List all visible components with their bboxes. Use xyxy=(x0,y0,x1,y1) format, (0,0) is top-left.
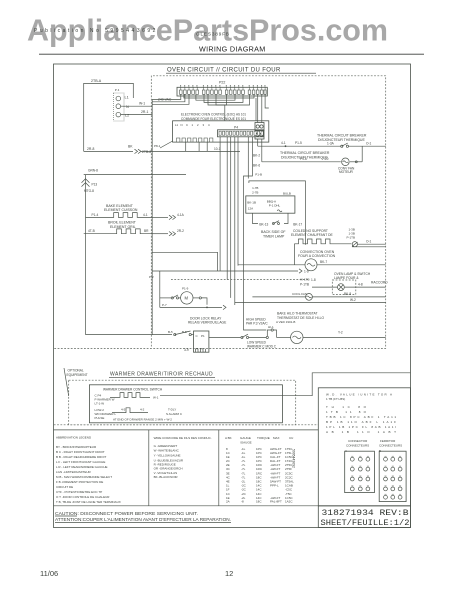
svg-text:BK-13: BK-13 xyxy=(259,222,268,226)
svg-text:P8-1: P8-1 xyxy=(154,144,161,148)
bottom wire of motor box xyxy=(160,306,222,308)
svg-text:THERMAL CIRCUIT BREAKER: THERMAL CIRCUIT BREAKER xyxy=(280,151,330,155)
svg-text:TIMER LAMP: TIMER LAMP xyxy=(263,235,285,239)
svg-text:BK-8: BK-8 xyxy=(344,292,351,296)
terminal N xyxy=(116,104,121,109)
svg-text:B C - RIGHT FRONT/AVANT DROIT: B C - RIGHT FRONT/AVANT DROIT xyxy=(56,450,105,454)
svg-text:P13: P13 xyxy=(92,182,98,186)
svg-text:12A: 12A xyxy=(248,206,253,210)
EOC left pin labels xyxy=(175,123,210,127)
svg-text:M: M xyxy=(185,296,189,301)
EOC pin drop wires xyxy=(185,142,187,151)
svg-text:10-1: 10-1 xyxy=(214,147,221,151)
chassis ground symbol xyxy=(85,175,87,191)
left connector grid xyxy=(345,451,375,492)
signal 2 waveform xyxy=(112,408,148,413)
svg-text:F B -FIREMENT PROTECTION DE: F B -FIREMENT PROTECTION DE xyxy=(56,480,103,484)
box top wire y265.6 xyxy=(238,264,305,266)
svg-text:7-10: 7-10 xyxy=(322,157,329,161)
svg-text:/GAUGE: /GAUGE xyxy=(240,441,252,445)
signal 1 wire to right xyxy=(160,395,282,397)
wire y302.6 xyxy=(235,302,386,304)
svg-text:4-1: 4-1 xyxy=(281,141,286,145)
ground wire run xyxy=(84,174,186,176)
timer assembly inner box xyxy=(246,196,295,213)
svg-text:BK-7: BK-7 xyxy=(320,260,327,264)
P8 pin row lower-left of EOC xyxy=(177,138,213,142)
P22 routing bus U1 xyxy=(152,94,181,99)
svg-text:2R-1: 2R-1 xyxy=(141,110,148,114)
svg-text:BAKE ELEMENT: BAKE ELEMENT xyxy=(106,204,134,208)
svg-text:Y-2: Y-2 xyxy=(338,330,343,334)
wire L1 feed from terminal block top xyxy=(84,83,134,151)
svg-text:4T-B: 4T-B xyxy=(88,229,95,233)
wire code column xyxy=(154,436,212,479)
svg-text:1-6: 1-6 xyxy=(304,270,309,274)
svg-text:BK-1B: BK-1B xyxy=(247,201,256,205)
svg-text:5995443692: 5995443692 xyxy=(292,449,296,468)
connector arrows 2TB-B xyxy=(135,149,142,153)
svg-text:B-5: B-5 xyxy=(168,330,173,334)
svg-text:4-8: 4-8 xyxy=(358,283,363,287)
svg-text:1-3A: 1-3A xyxy=(327,142,335,146)
svg-text:L R - LEFT REAR/ARRIERE GAUCH: L R - LEFT REAR/ARRIERE GAUCHE xyxy=(56,465,108,469)
warmer drawer motor xyxy=(277,336,291,338)
svg-text:12: 12 xyxy=(225,569,233,578)
svg-text:BY - BRICK/INTERRUPTEUR: BY - BRICK/INTERRUPTEUR xyxy=(56,445,97,449)
svg-text:BR: BR xyxy=(144,229,149,233)
svg-text:LT-1-W: LT-1-W xyxy=(95,401,105,405)
svg-text:2-7B: 2-7B xyxy=(252,191,258,195)
svg-text:P1-B: P1-B xyxy=(255,173,262,177)
oven lamp xyxy=(338,284,345,291)
abbreviation legend column xyxy=(56,436,121,504)
svg-text:WARMER C MOD C: WARMER C MOD C xyxy=(247,345,277,349)
M switch contacts xyxy=(160,297,171,299)
svg-text:L2: L2 xyxy=(125,113,129,117)
svg-text:COOL FAN: COOL FAN xyxy=(292,292,307,296)
svg-text:1-7B: 1-7B xyxy=(252,186,258,190)
svg-text:CAUTION: DISCONNECT POWER BEFO: CAUTION: DISCONNECT POWER BEFORE SERVICI… xyxy=(55,511,198,516)
broil wire crossing into oven box xyxy=(152,233,168,235)
terminal L2 xyxy=(116,112,121,117)
motor circuit wire y271 xyxy=(152,270,298,272)
P1 connector on EOC xyxy=(255,123,264,131)
oven cool fan wires right area xyxy=(312,296,386,298)
P22 routing bus U4 xyxy=(204,94,243,102)
sheet border xyxy=(54,64,411,528)
convection fan motor xyxy=(342,158,350,166)
P22 drop to EOC top xyxy=(224,105,226,121)
svg-text:P-2: P-2 xyxy=(149,275,154,279)
svg-text:T B, TB-DE JOINT DE LIGNE TER: T B, TB-DE JOINT DE LIGNE TER TERMINAUX xyxy=(56,500,121,504)
svg-text:P-7: P-7 xyxy=(162,303,167,307)
svg-text:CIRCUIT DE: CIRCUIT DE xyxy=(56,485,73,489)
convection motor xyxy=(305,259,317,271)
svg-text:L F - LEFT FRONT/AVANT GAUC: L F - LEFT FRONT/AVANT GAUCHE xyxy=(56,460,105,464)
svg-text:DISJONCTEUR THERMIQUE: DISJONCTEUR THERMIQUE xyxy=(318,138,365,142)
warmer wires to right margin xyxy=(282,373,410,396)
svg-text:2R-8: 2R-8 xyxy=(87,147,94,151)
terminal L1 xyxy=(116,96,121,101)
svg-text:M B - MAN WARM/COMMANDE SELEC: M B - MAN WARM/COMMANDE SELECT xyxy=(56,475,112,479)
svg-text:2R-2: 2R-2 xyxy=(177,229,184,233)
signal 1 waveform xyxy=(110,393,150,398)
relay coil bumps xyxy=(196,349,206,352)
door light switch motor M xyxy=(159,271,161,307)
oven lamp dashed box xyxy=(332,280,356,295)
terminal block P13 dotted body xyxy=(114,93,125,121)
svg-text:BROIL ELEMENT: BROIL ELEMENT xyxy=(108,220,137,224)
svg-text:W-2: W-2 xyxy=(350,298,356,302)
svg-text:COMMANDE FOUR ELECTRONIQUE ES: COMMANDE FOUR ELECTRONIQUE ES 101 xyxy=(181,117,246,121)
timer coil squiggle xyxy=(277,210,282,212)
thermal breaker 2 wire xyxy=(262,161,341,163)
left feed vertical xyxy=(85,191,87,335)
svg-text:1PL 1B 1PC FL 8AB: 1PL 1B 1PC FL 8AB 1A1I xyxy=(326,425,396,429)
P22 right pins drop to P1/P2 connectors xyxy=(257,94,259,122)
svg-text:N: N xyxy=(181,123,183,127)
svg-text:FOUR A CONVECTION: FOUR A CONVECTION xyxy=(298,254,336,258)
svg-text:BK-2: BK-2 xyxy=(253,154,260,158)
svg-text:BK-17: BK-17 xyxy=(293,222,302,226)
P22 routing bus U5 xyxy=(208,94,227,105)
svg-text:ELEMENT CHAUFFANT DE: ELEMENT CHAUFFANT DE xyxy=(291,233,333,237)
svg-text:1 TB (FT LBS): 1 TB (FT LBS) xyxy=(326,397,345,401)
P22 pin number row xyxy=(180,85,266,87)
revision box xyxy=(318,506,410,528)
header rule xyxy=(39,53,424,55)
svg-text:P4: P4 xyxy=(234,126,238,130)
svg-text:4-1: 4-1 xyxy=(143,213,148,217)
svg-text:O T -DOOR CONTROLE DE CHALEUR: O T -DOOR CONTROLE DE CHALEUR xyxy=(56,495,110,499)
wire2 up-connect xyxy=(361,146,363,162)
thermal fuse xyxy=(352,242,357,247)
svg-text:P1-6: P1-6 xyxy=(300,157,307,161)
svg-text:P1: P1 xyxy=(201,334,205,338)
svg-text:WARMER DRAWER/TIROIR RECHAUD: WARMER DRAWER/TIROIR RECHAUD xyxy=(110,372,213,378)
svg-text:4-1A: 4-1A xyxy=(177,213,185,217)
legend divider 1 xyxy=(148,430,150,506)
legend top rule xyxy=(54,429,319,431)
element return drop xyxy=(293,244,295,265)
svg-text:P 4: P 4 xyxy=(115,88,120,92)
svg-text:ELECTRONIC OVEN CONTROL (EOC): ELECTRONIC OVEN CONTROL (EOC) AS 101 xyxy=(181,112,246,116)
svg-text:ATTENTION:COUPER L'ALIMENTATIO: ATTENTION:COUPER L'ALIMENTATION AVANT D'… xyxy=(55,517,231,522)
svg-text:2TB-A: 2TB-A xyxy=(91,79,102,83)
junction dot xyxy=(285,145,287,147)
svg-text:C: C xyxy=(186,123,188,127)
svg-text:OR -ORANGE/ORCH: OR -ORANGE/ORCH xyxy=(154,466,183,470)
EOC box xyxy=(173,121,269,142)
svg-text:A VED 1901-B: A VED 1901-B xyxy=(276,320,295,324)
svg-text:W -WHITE/BLANC: W -WHITE/BLANC xyxy=(154,449,180,453)
thermal breaker 1 wire xyxy=(258,145,341,147)
svg-text:WARMER DRAWER CONTROL SWITCH: WARMER DRAWER CONTROL SWITCH xyxy=(103,388,163,392)
svg-text:4-5: 4-5 xyxy=(121,408,126,412)
timer assembly outer frame xyxy=(249,181,306,245)
svg-text:O-1: O-1 xyxy=(366,142,372,146)
svg-text:ELEMENT CUISSON: ELEMENT CUISSON xyxy=(104,208,138,212)
svg-text:PULSE: PULSE xyxy=(95,416,105,420)
svg-text:Y -YELLOW/JAUNE: Y -YELLOW/JAUNE xyxy=(154,454,181,458)
dashed rule above legend xyxy=(54,424,319,426)
svg-text:S ALARM C: S ALARM C xyxy=(166,412,183,416)
P22 routing bus U2 xyxy=(184,94,254,98)
hi/lo switch contacts xyxy=(241,336,243,338)
legend divider 2 xyxy=(218,430,220,506)
svg-text:CTF - POTENTIOMETRE EOC TP: CTF - POTENTIOMETRE EOC TP xyxy=(56,490,102,494)
wire relay to warmer motor xyxy=(209,336,241,338)
thermal breaker 1 switch xyxy=(341,145,343,147)
P22 routing bus U6 xyxy=(216,94,250,105)
P22 pins xyxy=(180,90,267,94)
svg-text:11/06: 11/06 xyxy=(40,569,58,578)
motor circuit dashed wire y279.6 xyxy=(171,279,308,281)
svg-text:GRN-8: GRN-8 xyxy=(88,168,98,172)
broil element xyxy=(84,229,153,234)
relay contacts xyxy=(174,334,176,336)
svg-text:PAR P.3 V2A/C: PAR P.3 V2A/C xyxy=(246,322,268,326)
svg-text:HI-1: HI-1 xyxy=(268,325,274,329)
svg-text:1-8: 1-8 xyxy=(311,278,316,282)
bake wire crossing into oven box xyxy=(152,216,168,218)
svg-text:BULB: BULB xyxy=(283,191,291,195)
svg-text:P-1TB: P-1TB xyxy=(347,235,356,239)
bake element xyxy=(86,213,153,218)
svg-text:B B - RIGHT REAR/ARRIERE DROI: B B - RIGHT REAR/ARRIERE DROIT xyxy=(56,455,106,459)
wire gauge table column xyxy=(225,436,294,503)
door lock relay wire from left feed xyxy=(86,334,173,336)
svg-text:LGN -LIMITER/LIMITEUR: LGN -LIMITER/LIMITEUR xyxy=(56,470,92,474)
svg-text:P1-4: P1-4 xyxy=(92,213,99,217)
convection element xyxy=(294,239,351,244)
P22 pin ticks xyxy=(181,87,265,90)
svg-text:BK: BK xyxy=(128,145,133,149)
svg-text:W-1: W-1 xyxy=(139,102,145,106)
svg-text:P-1 DHL: P-1 DHL xyxy=(269,204,281,208)
bus branch to motor circuit xyxy=(152,252,217,271)
svg-text:L1: L1 xyxy=(125,96,129,100)
svg-text:BK-6: BK-6 xyxy=(253,164,260,168)
svg-text:SHEET/FEUILLE:1/2: SHEET/FEUILLE:1/2 xyxy=(321,519,410,528)
svg-text:CONVECTION OVEN: CONVECTION OVEN xyxy=(300,250,335,254)
svg-text:WIRE COD/CODE DE FILS DES COND: WIRE COD/CODE DE FILS DES CONDUC. xyxy=(154,436,212,440)
svg-text:318271934 REV:B: 318271934 REV:B xyxy=(322,509,409,518)
door lock relay box xyxy=(194,331,209,352)
timer exit wires xyxy=(253,213,259,223)
svg-text:RELAIS VERROUILLAGE: RELAIS VERROUILLAGE xyxy=(188,321,227,325)
lamp wires xyxy=(312,286,338,288)
svg-text:HI-1TB: HI-1TB xyxy=(300,278,310,282)
svg-text:CONNECTOR: CONNECTOR xyxy=(348,439,368,443)
svg-text:LAMPE FOUR &: LAMPE FOUR & xyxy=(334,276,359,280)
bus wire y150 right of dashed edge xyxy=(141,150,240,152)
P22 routing bus U3 xyxy=(196,94,235,100)
svg-text:ABBREVIATION LEGEND: ABBREVIATION LEGEND xyxy=(56,436,92,440)
wire bottom 2TB-B run xyxy=(84,150,133,152)
P2 connector on EOC xyxy=(255,131,264,140)
svg-text:Publication No 5995443692: Publication No 5995443692 xyxy=(34,28,158,34)
oven circuit dashed enclosure xyxy=(54,76,386,349)
svg-text:N: N xyxy=(126,105,129,109)
svg-text:O-1: O-1 xyxy=(366,240,372,244)
svg-text:4-2: 4-2 xyxy=(140,408,145,412)
svg-text:MOTEUR: MOTEUR xyxy=(339,170,354,174)
svg-text:RACCORD: RACCORD xyxy=(371,280,388,284)
P22 connector strip xyxy=(177,87,267,96)
svg-text:3-9: 3-9 xyxy=(184,348,189,352)
svg-text:G -GREEN/VERT: G -GREEN/VERT xyxy=(154,444,178,448)
svg-text:BP 1B 11O ABF L: BP 1B 11O ABF L 1A1F xyxy=(326,420,396,424)
svg-text:THERMAL CIRCUIT BREAKER: THERMAL CIRCUIT BREAKER xyxy=(317,134,367,138)
svg-text:P22: P22 xyxy=(219,81,225,85)
right connector grid xyxy=(379,451,406,501)
warmer drawer control box xyxy=(89,385,282,423)
svg-text:2TB-8: 2TB-8 xyxy=(142,150,151,154)
svg-text:P1-5: P1-5 xyxy=(295,141,302,145)
svg-text:BACK SIDE OF: BACK SIDE OF xyxy=(261,230,286,234)
legend bottom rule xyxy=(54,505,411,507)
svg-text:P1-9: P1-9 xyxy=(182,287,189,291)
svg-text:P-1TB: P-1TB xyxy=(300,283,309,287)
svg-text:BK -BLACK/NOIR: BK -BLACK/NOIR xyxy=(154,475,179,479)
wire L2 to bus xyxy=(121,114,153,116)
right tall box with torque table xyxy=(318,388,410,506)
svg-text:EQUIPEMENT: EQUIPEMENT xyxy=(67,373,88,377)
svg-text:FERRITOR: FERRITOR xyxy=(380,439,396,443)
svg-text:AT END OF DRAWER RANGE 2 MIN +: AT END OF DRAWER RANGE 2 MIN + W-2 xyxy=(113,418,172,422)
P4 pin row xyxy=(218,130,264,137)
svg-text:CONNECTEURS: CONNECTEURS xyxy=(346,443,369,447)
svg-text:CONNECTEURS: CONNECTEURS xyxy=(379,443,402,447)
svg-text:WIRING DIAGRAM: WIRING DIAGRAM xyxy=(199,45,266,54)
vertical bus x152.5 xyxy=(151,99,153,334)
svg-text:ELEMENT GRIL: ELEMENT GRIL xyxy=(110,225,136,229)
svg-text:GLES389FB: GLES389FB xyxy=(196,32,230,37)
warmer drawer dashed enclosure xyxy=(69,380,296,425)
wire N to bus xyxy=(121,105,153,107)
svg-text:L1: L1 xyxy=(175,123,179,127)
svg-text:W-1: W-1 xyxy=(153,396,159,400)
svg-text:OVEN CIRCUIT // CIRCUIT DU FOU: OVEN CIRCUIT // CIRCUIT DU FOUR xyxy=(167,68,281,74)
